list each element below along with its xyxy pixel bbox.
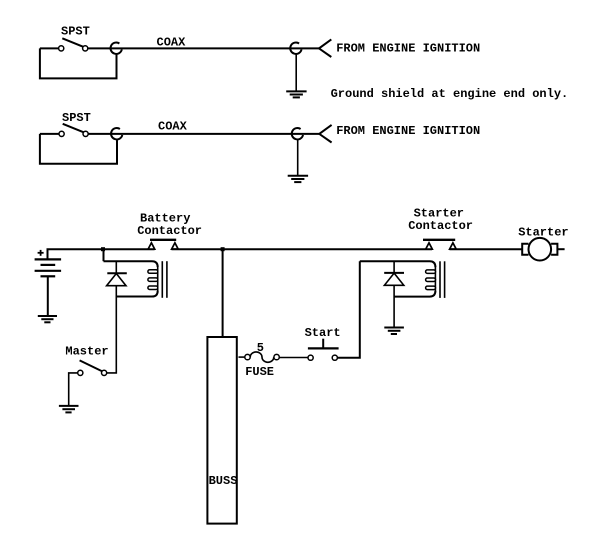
contactor K1 right contact triangle (172, 243, 179, 249)
wire battery negative to ground (47, 276, 49, 315)
svg-text:SPST: SPST (61, 24, 90, 38)
wire buss to fuse F1 (239, 356, 245, 358)
contactor K2 bar (423, 239, 455, 241)
node junction dot (buss tap) (221, 247, 225, 251)
relay K2 core line 2 (444, 261, 446, 298)
relay K2 core line 1 (439, 261, 441, 298)
contactor K2 left contact triangle (426, 243, 433, 249)
svg-text:Starter: Starter (518, 225, 568, 239)
svg-text:Ground shield at engine end on: Ground shield at engine end only. (331, 87, 569, 101)
coax connector J1 (open circle) (111, 43, 122, 54)
wire battery to bus corner (48, 249, 104, 259)
relay K2 coil box bottom (394, 291, 435, 297)
starter motor right bracket (551, 244, 557, 255)
diode D2 anode wire (393, 261, 395, 273)
wire K1 coil feed from junction (103, 250, 105, 261)
wire J4 ground drop (297, 140, 299, 175)
svg-text:Contactor: Contactor (408, 219, 473, 233)
svg-text:Contactor: Contactor (137, 224, 202, 238)
wire buss feed drop (222, 249, 224, 336)
battery B1 plates (35, 259, 62, 276)
relay K1 coil right side (157, 266, 159, 292)
svg-text:FROM ENGINE IGNITION: FROM ENGINE IGNITION (336, 41, 480, 55)
coax connector J4 (open circle) (292, 128, 303, 139)
relay K1 coil box top (104, 261, 158, 267)
start button stem (322, 339, 324, 349)
start button right contact (332, 355, 337, 360)
fuse F1 right terminal (274, 354, 279, 359)
relay K1 core line 2 (166, 261, 168, 298)
node junction dot (battery contactor tap) (101, 247, 105, 251)
ground (master) (59, 406, 79, 413)
wire J2 to chevron (291, 47, 319, 49)
relay K2 coil bump 2 (426, 278, 436, 282)
diode D2 cathode bar (384, 272, 404, 274)
wire loop of switch S2 (40, 134, 117, 164)
starter motor body circle (529, 238, 552, 261)
ground (battery) (38, 316, 57, 322)
coax connector J2 (open circle) (290, 43, 301, 54)
relay K1 core line 1 (161, 261, 163, 298)
switch S2 right contact (83, 131, 88, 136)
svg-text:FUSE: FUSE (245, 365, 274, 379)
diode D1 cathode bar (107, 272, 127, 274)
svg-text:Start: Start (305, 326, 341, 340)
battery plus label (38, 250, 44, 256)
wire COAX run row1 (110, 47, 290, 49)
wire bus: contactor K1 to starter contactor K2 (172, 248, 433, 250)
buss bar rectangle (207, 337, 236, 524)
relay K2 coil right side (434, 266, 436, 292)
relay K1 coil box bottom (116, 291, 157, 297)
svg-text:COAX: COAX (157, 35, 187, 49)
switch S1 left contact (59, 46, 64, 51)
switch S1 right contact (83, 46, 88, 51)
fuse F1 element (wave) (250, 352, 274, 362)
wire starter motor terminal (557, 248, 564, 250)
svg-text:BUSS: BUSS (209, 474, 238, 488)
relay K2 coil bump 3 (426, 286, 436, 290)
diode D2 triangle (384, 273, 403, 285)
wire loop of switch S1 (left vertical, bottom, up to connector) (40, 48, 117, 78)
diode D1 triangle (107, 274, 126, 286)
wire from loop to switch S2 left contact (40, 133, 59, 135)
wire COAX run row2 (111, 133, 292, 135)
switch S2 lever (63, 124, 85, 133)
switch S2 left contact (59, 131, 64, 136)
ground (starter contactor) (384, 328, 404, 335)
relay K1 coil bump 1 (148, 270, 158, 274)
wire master switch to ground (69, 373, 78, 405)
diode D1 anode wire (115, 261, 117, 273)
wire J2 ground drop (295, 55, 297, 91)
fuse F1 left terminal (245, 354, 250, 359)
master switch left contact (78, 370, 83, 375)
svg-text:Master: Master (65, 345, 108, 359)
wire from loop to switch S1 left contact (40, 47, 58, 49)
wire D2 to ground (393, 285, 395, 327)
relay K2 coil box top (360, 261, 436, 267)
ground (row1) (286, 91, 306, 97)
relay K2 coil bump 1 (426, 270, 436, 274)
contactor K1 bar (150, 239, 176, 241)
master switch right contact (102, 370, 107, 375)
wire from S2 to coax connector J3 (88, 133, 111, 135)
svg-text:FROM ENGINE IGNITION: FROM ENGINE IGNITION (336, 124, 480, 138)
chevron arrow (from engine ignition, row2) (319, 125, 331, 143)
coax connector J3 (open circle) (111, 128, 122, 139)
wire bus: contactor K2 to starter motor (450, 248, 522, 250)
start button left contact (308, 355, 313, 360)
contactor K2 right contact triangle (450, 243, 457, 249)
start button bar (308, 347, 339, 349)
wire from S1 to coax connector J1 (88, 47, 110, 49)
wire bus: battery to contactor K1 left contact (103, 248, 155, 250)
switch S1 lever (62, 38, 84, 47)
wire start button to relay K2 (338, 261, 360, 357)
master switch lever (80, 360, 103, 371)
ground (row2) (288, 176, 308, 182)
wire fuse to start button (279, 357, 308, 359)
svg-text:COAX: COAX (158, 120, 188, 134)
contactor K1 left contact triangle (148, 243, 155, 249)
svg-text:SPST: SPST (62, 111, 91, 125)
chevron arrow (from engine ignition, row1) (319, 39, 331, 57)
wire J4 to chevron (292, 133, 319, 135)
wire D1 to master switch (107, 286, 117, 373)
relay K1 coil bump 3 (148, 286, 158, 290)
relay K1 coil bump 2 (148, 278, 158, 282)
starter motor left bracket (522, 244, 528, 255)
